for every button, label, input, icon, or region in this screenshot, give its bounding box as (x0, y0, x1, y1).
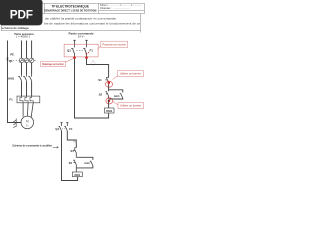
svg-text:Q1: Q1 (55, 127, 59, 131)
contactor KM1 pole 2 (23, 75, 26, 82)
svg-text:Utiliser un bornier: Utiliser un bornier (120, 105, 141, 108)
wire branch km1 (109, 90, 123, 99)
leader 2 (97, 46, 100, 50)
svg-text:Q1: Q1 (67, 49, 71, 53)
motor leads (23, 103, 33, 117)
switch Q1 (71, 48, 74, 56)
thermal relay F1 box (17, 96, 40, 103)
switch S1 bottom (73, 148, 76, 157)
title partie commande (69, 32, 94, 39)
wire supply right (85, 40, 87, 47)
red label 2 (101, 41, 128, 47)
wire F1 to S1 bottom (67, 131, 76, 148)
switch S2 bottom (73, 160, 76, 172)
svg-text:KM1: KM1 (106, 109, 112, 113)
contactor KM1 pole 3 (28, 75, 31, 82)
svg-text:S2: S2 (99, 92, 103, 96)
wire left rail (75, 59, 109, 118)
svg-text:PDF: PDF (10, 8, 33, 22)
dashed link Q1-F1 (76, 50, 84, 52)
svg-text:km1: km1 (85, 161, 91, 165)
svg-text:Q1: Q1 (9, 59, 13, 63)
svg-text:schéma de câblage.: schéma de câblage. (2, 26, 30, 30)
thermal relay F1 element 3 (30, 96, 33, 103)
svg-text:S1: S1 (98, 78, 102, 82)
switch Q1 bottom (59, 126, 62, 130)
svg-text:M: M (26, 119, 29, 123)
header name fields (100, 3, 142, 10)
dashed link bottom (62, 127, 67, 129)
svg-text:S2: S2 (69, 161, 73, 165)
svg-text:F1: F1 (90, 49, 94, 53)
wire branch km1 bottom (76, 157, 93, 168)
red label 3 (117, 71, 143, 77)
title partie puissance (14, 32, 34, 39)
small red terminal marks F1 (86, 53, 88, 55)
switch S2 (106, 92, 109, 99)
node dot S1 (108, 82, 111, 85)
leader 4 (113, 101, 118, 104)
wire PE (8, 41, 22, 123)
wire L1 (21, 41, 23, 97)
switch F1 bottom (64, 126, 67, 130)
terminal mark at corner (74, 141, 77, 143)
node dot S2 (108, 100, 111, 103)
node dot Q1 (73, 56, 76, 59)
ground (13, 118, 16, 127)
breaker Q1 pole 2 (24, 58, 29, 63)
svg-text:KM1: KM1 (74, 173, 80, 177)
svg-text:3~: 3~ (26, 123, 29, 127)
svg-text:( ≈ 400V ): ( ≈ 400V ) (16, 35, 30, 39)
PDF badge (0, 0, 43, 25)
switch S1 (105, 78, 108, 83)
red label 4 (118, 103, 144, 109)
paragraph box borders (1, 14, 141, 33)
svg-text:km1: km1 (114, 94, 120, 98)
contactor KM1 pole 1 (18, 75, 21, 82)
contact km1 bottom (90, 161, 93, 165)
wire S1 to S2 (108, 84, 110, 91)
header table borders (1, 4, 145, 14)
node dot F1 (85, 56, 88, 59)
motor M1 (21, 116, 34, 129)
fuse-switch F1 (83, 48, 86, 56)
thermal relay F1 element 2 (25, 96, 28, 103)
svg-text:Schéma de commande à modifier: Schéma de commande à modifier (12, 144, 52, 148)
wire L3 (31, 41, 33, 97)
breaker Q1 pole 1 (19, 58, 24, 63)
coil KM1 (105, 108, 115, 113)
svg-text:F1: F1 (69, 127, 73, 131)
svg-text:S1: S1 (70, 149, 74, 153)
leader 1 (65, 58, 73, 62)
svg-text:Protection sur bornier: Protection sur bornier (102, 43, 126, 46)
red circle S1 (106, 81, 113, 87)
svg-text:Classe : ..................: Classe : .................. (100, 6, 130, 10)
thermal relay F1 element 1 (20, 96, 23, 103)
breaker Q1 pole 3 (29, 58, 34, 63)
paragraph text (2, 16, 141, 30)
wire node to coil (108, 100, 110, 108)
svg-text:DEMARRAGE DIRECT 1 SENS DE ROT: DEMARRAGE DIRECT 1 SENS DE ROTATION (44, 8, 96, 12)
svg-text:Utiliser un bornier: Utiliser un bornier (120, 73, 141, 76)
wire supply left (73, 40, 75, 47)
red label 1 (41, 61, 66, 66)
breaker Q1 dashed link (10, 59, 32, 61)
leader 3 (113, 76, 118, 80)
wire supply stubs bottom (60, 123, 68, 127)
annotation red box (64, 44, 98, 57)
breaker Q1 tick on PE (7, 57, 9, 60)
contact km1 (120, 94, 123, 98)
svg-text:Repérage sur bornier: Repérage sur bornier (42, 64, 64, 66)
header title (44, 4, 96, 12)
wire left rail bottom (62, 131, 78, 181)
wire F1 to S1 (87, 59, 109, 78)
red circle S2 node (106, 98, 113, 104)
coil KM1 bottom (72, 172, 82, 177)
svg-text:KM1: KM1 (8, 76, 14, 80)
breaker Q1 tail (34, 59, 36, 61)
wire L2 (26, 41, 28, 97)
arrow (53, 146, 59, 148)
svg-text:F1: F1 (9, 98, 13, 102)
svg-text:24 V~: 24 V~ (78, 34, 86, 38)
bleed-through mark (92, 61, 96, 65)
svg-text:PE: PE (10, 52, 14, 56)
svg-text:de câbler la partie puissance: de câbler la partie puissance et command… (45, 16, 117, 20)
svg-text:ble de traduire les informatio: ble de traduire les informations concern… (44, 21, 140, 25)
